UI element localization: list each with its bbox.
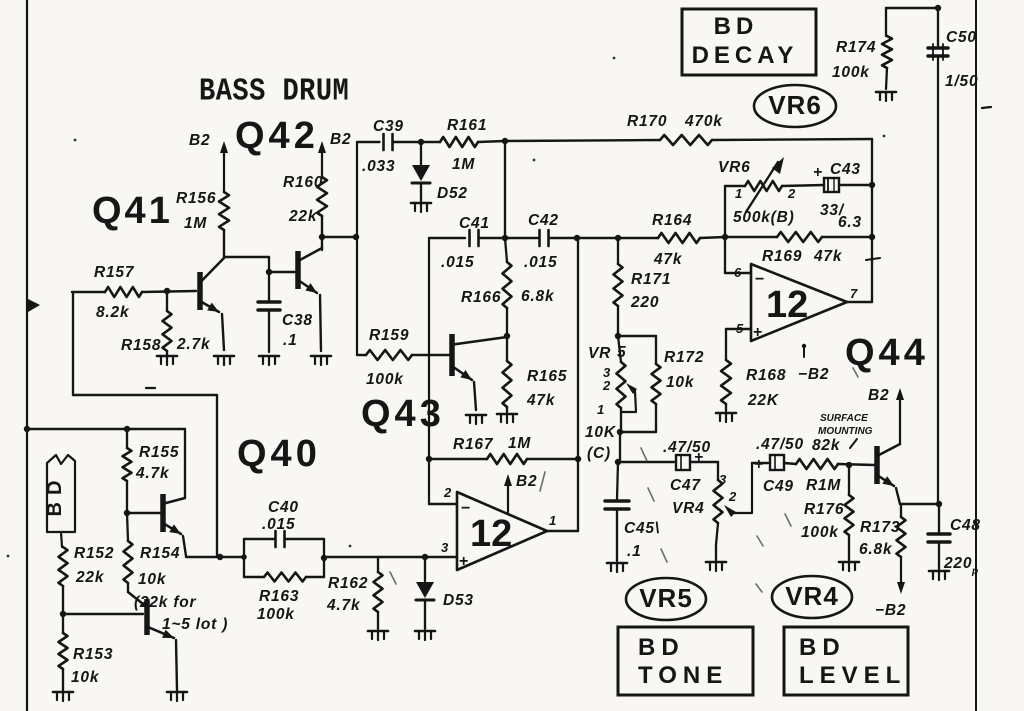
svg-text:R169: R169 (762, 248, 802, 265)
svg-text:R173: R173 (860, 519, 900, 536)
svg-text:22K: 22K (747, 392, 780, 409)
svg-text:8.2k: 8.2k (96, 304, 130, 321)
svg-text:R163: R163 (259, 588, 299, 605)
svg-text:R155: R155 (139, 444, 179, 461)
svg-text:2: 2 (787, 186, 796, 201)
svg-text:470k: 470k (684, 113, 723, 130)
svg-text:−: − (755, 271, 764, 288)
svg-text:VR: VR (588, 345, 611, 362)
svg-text:+: + (753, 324, 762, 341)
svg-text:C43: C43 (830, 161, 861, 178)
svg-text:(22k for: (22k for (134, 594, 197, 611)
svg-text:47k: 47k (813, 248, 843, 265)
svg-text:R170: R170 (627, 113, 667, 130)
svg-text:7: 7 (850, 286, 858, 301)
svg-text:2.7k: 2.7k (176, 336, 211, 353)
svg-text:B2: B2 (868, 387, 889, 404)
svg-text:R172: R172 (664, 349, 704, 366)
svg-text:.015: .015 (524, 254, 557, 271)
svg-text:1M: 1M (184, 215, 207, 232)
svg-text:82k: 82k (812, 437, 841, 454)
svg-text:C41: C41 (459, 215, 490, 232)
svg-text:C50: C50 (946, 29, 977, 46)
svg-text:Q43: Q43 (361, 393, 445, 435)
svg-text:Q42: Q42 (235, 115, 319, 157)
svg-text:.1: .1 (283, 332, 298, 349)
svg-text:1M: 1M (452, 156, 475, 173)
svg-text:R156: R156 (176, 190, 216, 207)
svg-text:C40: C40 (268, 499, 299, 516)
svg-text:.015: .015 (441, 254, 474, 271)
svg-text:R161: R161 (447, 117, 487, 134)
svg-text:VR6: VR6 (768, 90, 822, 120)
svg-text:220: 220 (630, 294, 659, 311)
svg-text:6: 6 (734, 265, 742, 280)
svg-text:R162: R162 (328, 575, 368, 592)
svg-text:SURFACE: SURFACE (820, 413, 868, 424)
svg-text:BD: BD (714, 13, 759, 40)
svg-text:R166: R166 (461, 289, 501, 306)
svg-text:2: 2 (443, 485, 452, 500)
svg-text:B2: B2 (516, 473, 537, 490)
svg-text:VR5: VR5 (639, 583, 693, 613)
svg-text:22k: 22k (75, 569, 105, 586)
svg-text:R164: R164 (652, 212, 692, 229)
svg-text:VR4: VR4 (672, 500, 705, 517)
svg-text:6.8k: 6.8k (521, 288, 555, 305)
svg-text:4.7k: 4.7k (326, 597, 361, 614)
svg-text:6.8k: 6.8k (859, 541, 893, 558)
svg-text:1M: 1M (508, 435, 531, 452)
svg-text:BD: BD (638, 634, 685, 661)
svg-text:(C): (C) (587, 445, 611, 462)
svg-text:+: + (813, 164, 823, 181)
svg-text:R167: R167 (453, 436, 494, 453)
svg-text:Q44: Q44 (845, 332, 929, 374)
svg-text:R171: R171 (631, 271, 671, 288)
svg-text:1: 1 (735, 186, 742, 201)
svg-text:1~5 lot ): 1~5 lot ) (162, 616, 228, 633)
svg-text:4.7k: 4.7k (135, 465, 170, 482)
svg-text:C49: C49 (763, 478, 794, 495)
svg-text:p: p (971, 566, 978, 577)
svg-text:−: − (461, 500, 470, 517)
svg-text:5: 5 (736, 321, 744, 336)
svg-text:−B2: −B2 (798, 366, 829, 383)
svg-text:Q40: Q40 (237, 433, 321, 475)
svg-text:2: 2 (602, 378, 611, 393)
svg-text:1/50: 1/50 (945, 73, 978, 90)
svg-text:.033: .033 (362, 158, 395, 175)
svg-text:R159: R159 (369, 327, 409, 344)
svg-text:R152: R152 (74, 545, 114, 562)
svg-text:D53: D53 (443, 592, 474, 609)
svg-text:10k: 10k (666, 374, 695, 391)
svg-text:LEVEL: LEVEL (799, 662, 906, 689)
svg-text:R154: R154 (140, 545, 180, 562)
svg-text:R153: R153 (73, 646, 113, 663)
svg-text:5: 5 (617, 344, 626, 361)
svg-text:6.3: 6.3 (838, 214, 862, 231)
svg-text:220: 220 (943, 555, 972, 572)
svg-text:+: + (459, 553, 468, 570)
svg-text:D52: D52 (437, 185, 468, 202)
svg-text:B2: B2 (330, 131, 351, 148)
svg-text:47k: 47k (526, 392, 556, 409)
svg-text:R174: R174 (836, 39, 876, 56)
svg-text:−B2: −B2 (875, 602, 906, 619)
svg-text:VR4: VR4 (785, 581, 839, 611)
svg-text:R1M: R1M (806, 477, 841, 494)
svg-text:R158: R158 (121, 337, 161, 354)
svg-text:100k: 100k (801, 524, 839, 541)
svg-text:100k: 100k (366, 371, 404, 388)
svg-text:R165: R165 (527, 368, 567, 385)
svg-text:MOUNTING: MOUNTING (818, 426, 873, 437)
svg-text:2: 2 (728, 489, 737, 504)
svg-text:Q41: Q41 (92, 190, 173, 232)
svg-text:VR6: VR6 (718, 159, 751, 176)
svg-text:47k: 47k (653, 251, 683, 268)
svg-text:.015: .015 (262, 516, 295, 533)
svg-text:+: + (754, 456, 764, 473)
svg-text:R157: R157 (94, 264, 135, 281)
svg-text:R176: R176 (804, 501, 844, 518)
svg-text:100k: 100k (257, 606, 295, 623)
svg-text:C42: C42 (528, 212, 559, 229)
svg-text:12: 12 (766, 284, 808, 326)
svg-text:10k: 10k (71, 669, 100, 686)
svg-text:12: 12 (470, 513, 512, 555)
svg-text:.1: .1 (627, 543, 642, 560)
svg-text:10k: 10k (138, 571, 167, 588)
svg-text:R160: R160 (283, 174, 323, 191)
svg-text:BD: BD (44, 474, 66, 517)
svg-text:TONE: TONE (638, 662, 728, 689)
svg-text:3: 3 (441, 540, 449, 555)
svg-text:.47/50: .47/50 (756, 436, 804, 453)
svg-text:1: 1 (549, 513, 556, 528)
svg-text:B2: B2 (189, 132, 210, 149)
svg-text:C45\: C45\ (624, 520, 660, 537)
svg-text:22k: 22k (288, 208, 318, 225)
svg-text:C39: C39 (373, 118, 404, 135)
svg-text:100k: 100k (832, 64, 870, 81)
svg-text:C38: C38 (282, 312, 313, 329)
svg-text:C48: C48 (950, 517, 981, 534)
svg-text:R168: R168 (746, 367, 786, 384)
svg-text:500k(B): 500k(B) (733, 209, 795, 226)
svg-text:C47: C47 (670, 477, 701, 494)
svg-text:BD: BD (799, 634, 846, 661)
svg-text:DECAY: DECAY (692, 42, 799, 69)
svg-text:.47/50: .47/50 (663, 439, 711, 456)
svg-text:10K: 10K (585, 424, 617, 441)
svg-text:1: 1 (597, 402, 604, 417)
svg-text:BASS DRUM: BASS DRUM (199, 73, 349, 110)
